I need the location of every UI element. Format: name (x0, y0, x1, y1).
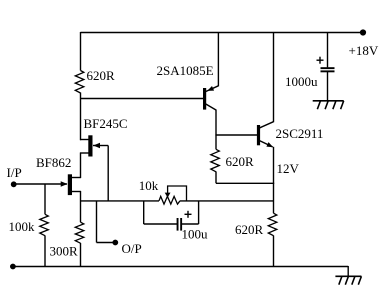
terminal dot I/P (11, 181, 17, 187)
wire Q2 source down through 300R (80, 191, 82, 222)
capacitor C1 100u plates (177, 218, 179, 231)
ground chassis symbol (bottom right) (335, 275, 361, 277)
svg-text:620R: 620R (226, 154, 255, 169)
terminal dot +18V (360, 29, 366, 35)
svg-text:BF862: BF862 (36, 155, 71, 170)
resistor R1 620R (top left) (75, 71, 84, 94)
svg-text:620R: 620R (87, 68, 116, 83)
wire U1 collector to Q3 base (215, 134, 257, 136)
wire Q1 gate lead right (93, 145, 108, 147)
wire Q1 drain lead (80, 139, 89, 141)
wire Q1 source down to Q2 drain (80, 153, 82, 179)
capacitor C2 1000u plates (321, 67, 335, 69)
wire Q2 drain lead (72, 177, 82, 179)
wire mid rail right segment to Q4 emitter line (180, 200, 274, 202)
wire R2 bottom to ground rail (44, 236, 46, 267)
C2 polarity + sign (317, 59, 324, 61)
Q3 collector diagonal (260, 122, 274, 128)
wire mid rail left segment (source node) (80, 200, 159, 202)
wire R1 bottom to BF245C drain (80, 93, 82, 141)
wire Q3 collector riser to rail (273, 32, 275, 122)
Q1 gate arrow (points left into channel) (93, 143, 100, 148)
wire Q3 emitter drop through junctions (273, 147, 275, 213)
Q3 emitter arrow (points out, NPN) (266, 142, 273, 147)
ground chassis symbol (top right) (313, 100, 344, 102)
wire 1000u branch from rail (327, 32, 329, 67)
resistor R3 300R (75, 222, 84, 243)
wire 100u left lead (144, 223, 178, 225)
wire R4 bottom link to emitter line (216, 182, 274, 184)
resistor R4 620R (middle) (211, 149, 220, 172)
resistor R5 620R (lower right) (268, 213, 277, 236)
wire O/P tap right (97, 242, 115, 244)
svg-text:2SA1085E: 2SA1085E (157, 63, 214, 78)
wire Q1 source lead (80, 152, 89, 154)
wire top +18V supply rail (81, 32, 364, 34)
wire Q1 gate drop to mid rail (107, 146, 109, 202)
svg-text:12V: 12V (277, 161, 300, 176)
svg-text:100k: 100k (9, 219, 36, 234)
wire input to Q2 gate (14, 183, 67, 185)
transistor U1 2SA1085E base bar (203, 88, 206, 110)
transistor Q1 BF245C channel bar (88, 135, 92, 156)
svg-text:100u: 100u (182, 227, 209, 242)
Q2 gate arrow (points right into channel) (61, 181, 68, 186)
terminal dot input ground (bottom left) (10, 264, 16, 270)
resistor R2 100k (40, 214, 49, 235)
svg-text:620R: 620R (235, 222, 264, 237)
terminal dot O/P (112, 240, 118, 246)
wire O/P tap down (96, 201, 98, 243)
svg-text:I/P: I/P (7, 165, 22, 180)
wire R3 bottom to ground rail (80, 243, 82, 267)
wire 100u right riser (198, 201, 200, 225)
wire Q2 source lead (72, 191, 82, 193)
potentiometer VR1 10k zigzag (159, 196, 180, 204)
svg-text:300R: 300R (50, 244, 79, 259)
wire 100u left drop (143, 201, 145, 225)
wire U1 emitter riser to rail (217, 32, 219, 86)
VR1 wiper box (wiper tied to right end) (168, 186, 187, 201)
svg-text:BF245C: BF245C (84, 116, 128, 131)
wire bottom ground rail (13, 266, 348, 268)
wire ground rail drop to chassis (347, 266, 349, 276)
wire 1000u to ground symbol (327, 72, 329, 101)
U1 emitter diagonal (206, 86, 219, 92)
wire supply rail down to R1 (80, 32, 82, 71)
wire 100k branch down (44, 184, 46, 214)
wire 100u right lead (182, 223, 199, 225)
svg-text:2SC2911: 2SC2911 (276, 126, 324, 141)
svg-text:+18V: +18V (349, 43, 379, 58)
wire R5 bottom to ground rail (273, 236, 275, 268)
svg-text:O/P: O/P (122, 241, 142, 256)
node base wire of U1 from R1/Q1 junction (81, 98, 204, 100)
U1 collector diagonal (206, 104, 216, 110)
transistor Q2 BF862 channel bar (68, 174, 72, 195)
U1 emitter arrow (points into bar, PNP) (207, 86, 214, 91)
svg-text:1000u: 1000u (285, 74, 318, 89)
svg-text:10k: 10k (139, 178, 159, 193)
Q3 emitter diagonal (260, 141, 273, 147)
transistor Q3 2SC2911 base bar (257, 125, 260, 145)
VR1 wiper arrow (165, 193, 171, 198)
C1 polarity + sign (185, 213, 192, 215)
wire R4 bottom lead (215, 172, 217, 184)
wire U1 collector drop to R4 (215, 110, 217, 150)
